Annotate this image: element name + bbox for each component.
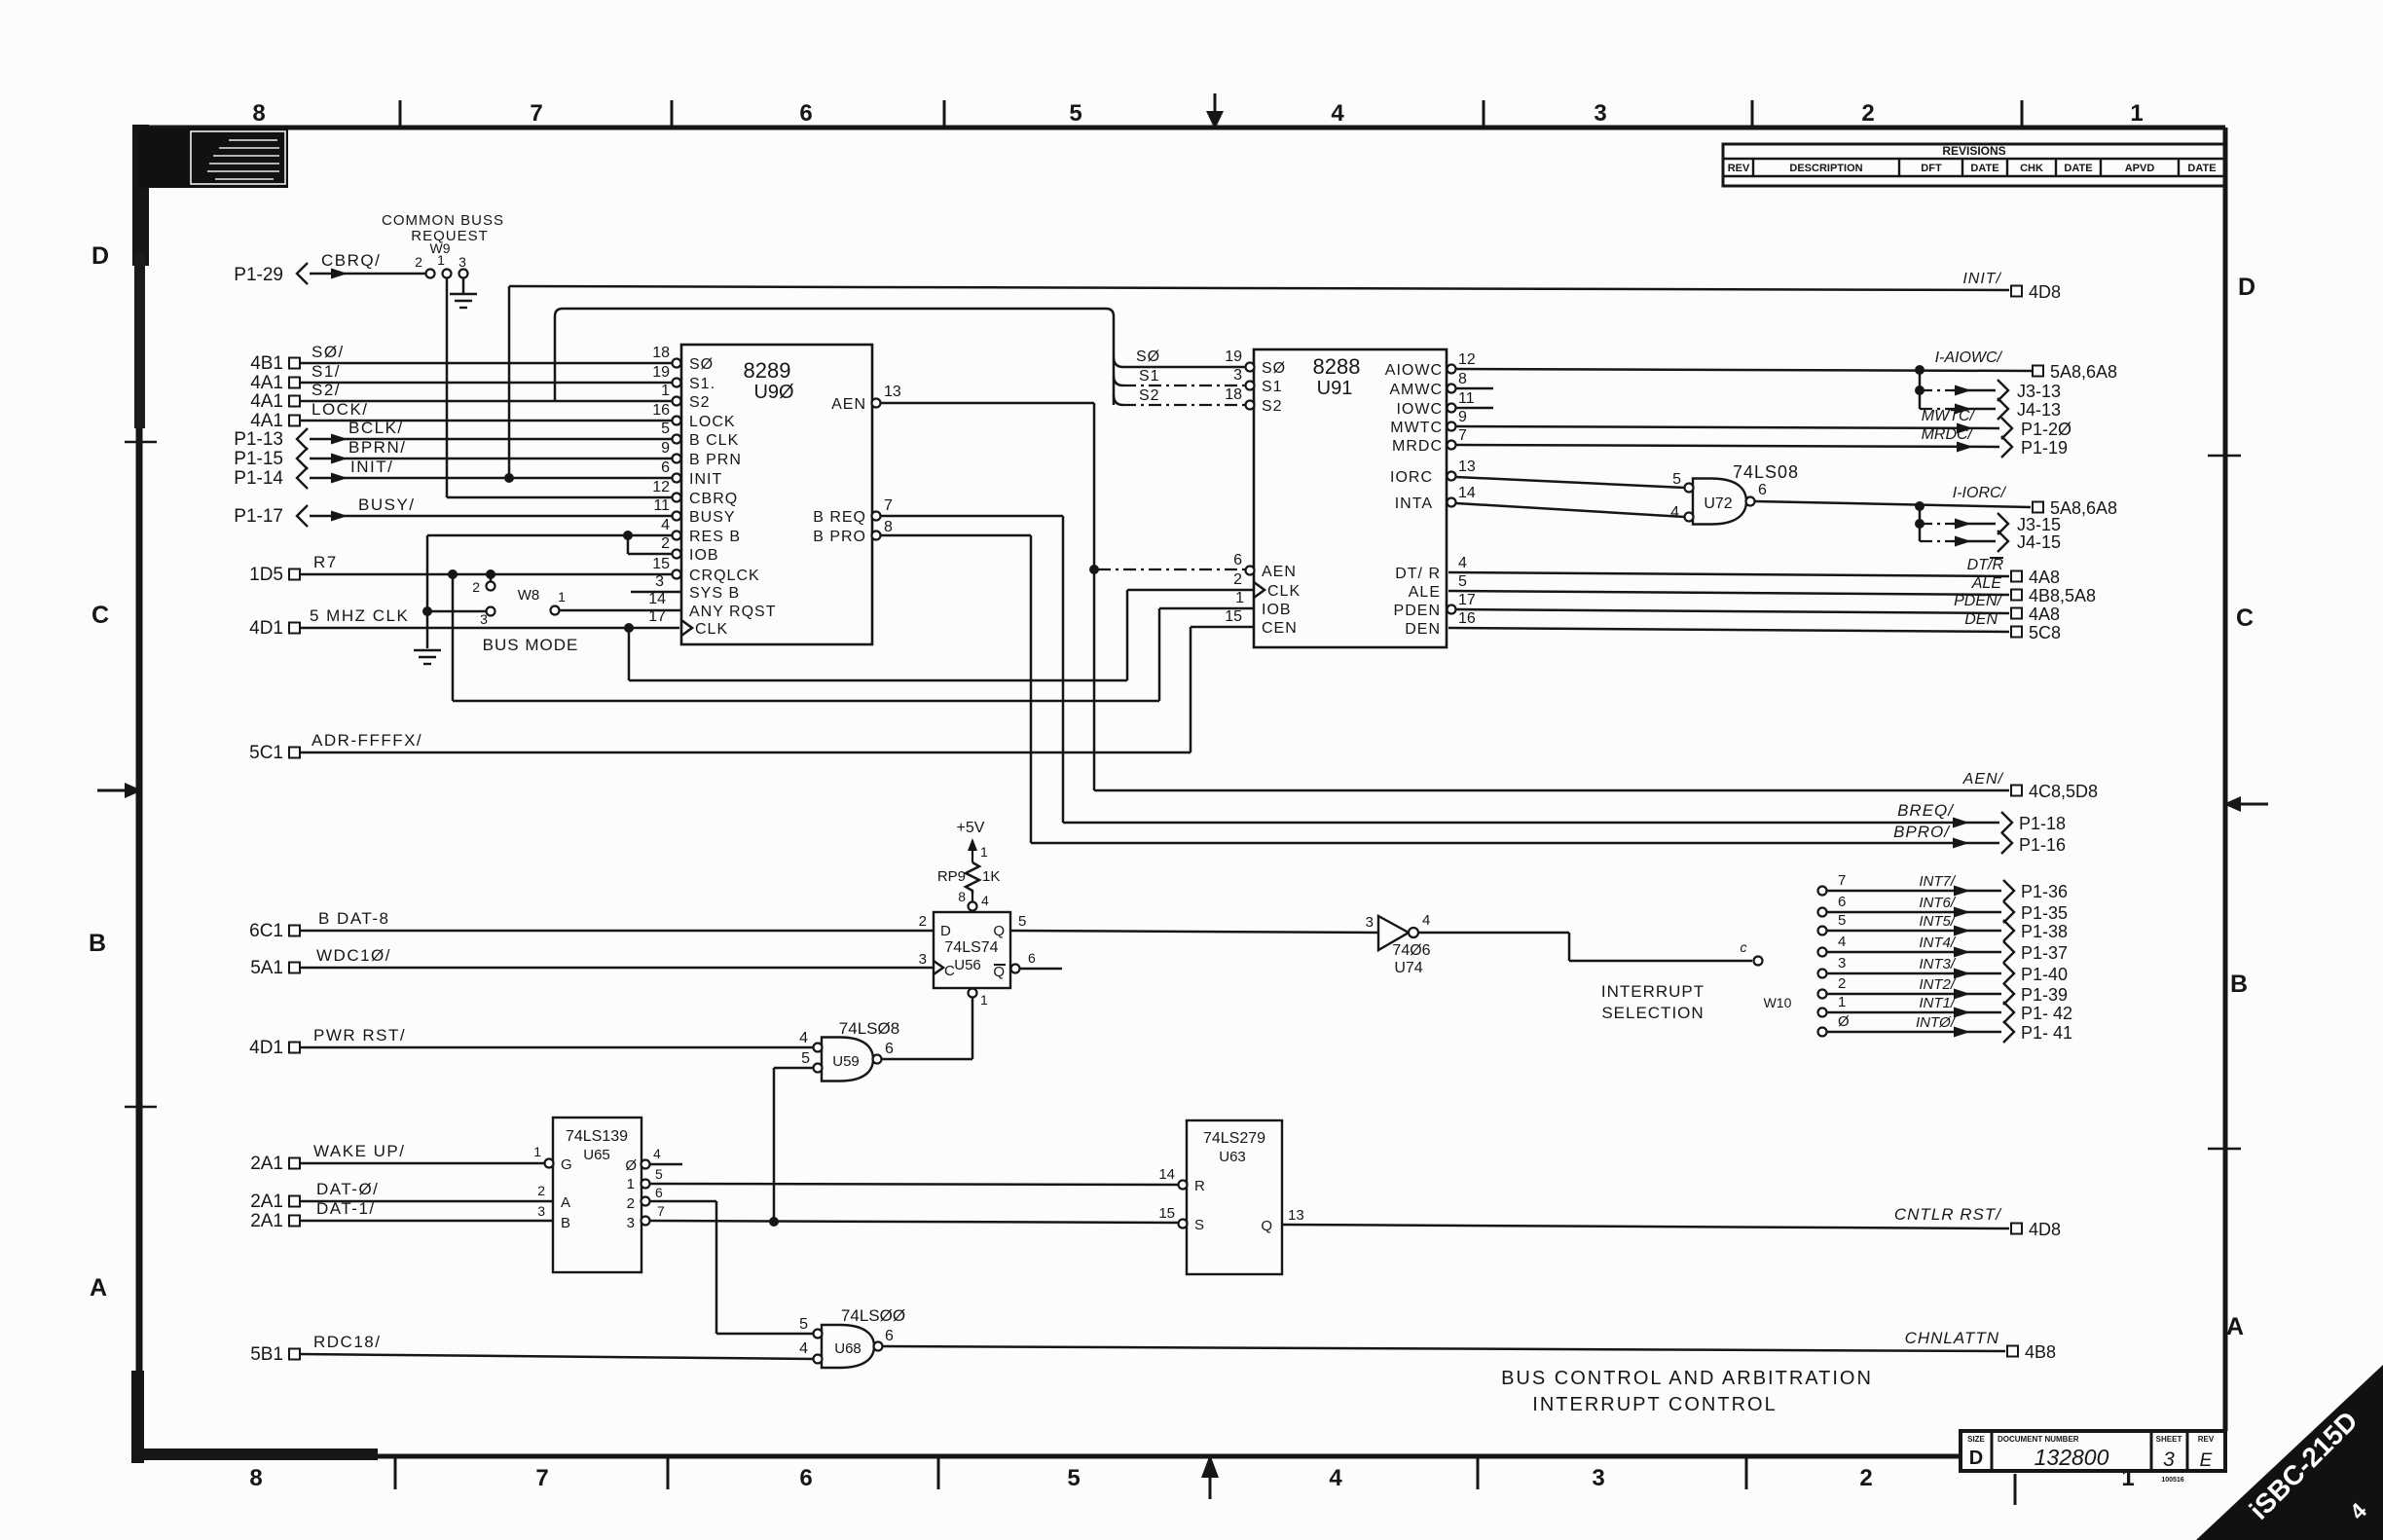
svg-text:19: 19 [652,364,670,381]
svg-text:14: 14 [1158,1166,1175,1183]
wire PWR RST/ from 4D1 [249,1026,814,1058]
svg-text:B PRO: B PRO [813,529,866,545]
svg-text:P1-14: P1-14 [234,468,283,489]
svg-text:I-AIOWC/: I-AIOWC/ [1935,349,2003,366]
svg-text:3: 3 [919,951,927,968]
wire INT4/ to P1-37 [1818,934,2069,963]
wire RES B [427,531,673,540]
svg-text:6: 6 [655,1185,663,1200]
svg-text:P1-19: P1-19 [2021,438,2068,458]
svg-text:CRQLCK: CRQLCK [689,568,760,584]
svg-text:INT1/: INT1/ [1919,995,1957,1011]
wire S1 to U91 pin 3 [1114,368,1246,385]
svg-text:RDC18/: RDC18/ [313,1333,381,1351]
svg-text:P1-39: P1-39 [2021,985,2068,1005]
svg-text:INT7/: INT7/ [1919,873,1957,890]
svg-text:1K: 1K [982,868,1000,885]
svg-text:5 MHZ CLK: 5 MHZ CLK [310,606,409,625]
svg-text:BPRN/: BPRN/ [348,438,406,457]
svg-text:4A8: 4A8 [2029,605,2060,624]
svg-text:C: C [92,602,109,629]
svg-text:S1.: S1. [689,376,715,392]
wire INT6/ to P1-35 [1818,894,2069,923]
svg-text:3: 3 [627,1215,635,1231]
svg-text:BPRO/: BPRO/ [1893,823,1951,841]
svg-text:S2: S2 [689,394,711,411]
left edge arrow marker [97,783,142,798]
node I-IORC/ output [2033,498,2117,518]
svg-text:P1- 42: P1- 42 [2021,1004,2072,1023]
svg-text:132800: 132800 [2035,1445,2109,1470]
svg-text:B: B [2230,971,2248,998]
svg-text:12: 12 [1458,351,1476,368]
svg-text:8: 8 [252,100,265,127]
svg-text:D: D [92,242,109,270]
wire ALE to 4B8,5A8 [1448,575,2096,605]
svg-text:6: 6 [885,1328,894,1344]
wire U56 pin1 preset from U59 [879,998,972,1059]
svg-text:P1-2Ø: P1-2Ø [2021,420,2071,439]
svg-text:IOB: IOB [689,547,719,564]
svg-text:4A1: 4A1 [250,391,283,412]
svg-text:INT2/: INT2/ [1919,976,1957,993]
label INTERRUPT SELECTION [1601,982,1792,1022]
wire U65 pin4 stub [650,1163,682,1166]
wire DAT-1/ from 2A1 [250,1199,553,1231]
wire S0/S1/S2 trunk [555,309,1114,405]
svg-text:P1- 41: P1- 41 [2021,1023,2072,1043]
svg-text:BUS MODE: BUS MODE [483,636,579,654]
svg-text:2: 2 [1838,975,1846,992]
svg-text:W8: W8 [518,587,540,604]
svg-text:1: 1 [437,252,445,268]
svg-text:SYS B: SYS B [689,585,740,602]
wire U65 pin6 to U68 [650,1201,814,1334]
svg-text:9: 9 [661,440,670,457]
svg-text:4: 4 [799,1340,808,1357]
svg-text:B: B [89,930,106,957]
bottom center arrow marker [1201,1454,1219,1499]
svg-text:REV: REV [2198,1435,2215,1444]
svg-text:c: c [1741,939,1747,955]
svg-text:2: 2 [1861,100,1874,127]
wire RES B to IOB pin2 [628,535,673,554]
title block [1961,1431,2225,1471]
border frame [139,128,2225,1456]
svg-text:4: 4 [799,1030,808,1046]
svg-text:J4-15: J4-15 [2017,532,2061,552]
svg-text:CHK: CHK [2020,163,2043,174]
svg-text:S: S [1194,1217,1204,1233]
logic gate U72 74LS08 [1670,462,1799,525]
svg-text:8289: 8289 [744,358,791,383]
svg-text:4B1: 4B1 [250,353,283,374]
svg-text:LOCK/: LOCK/ [312,400,369,419]
wire 5 MHZ CLK from 4D1 [249,606,679,639]
svg-text:DAT-Ø/: DAT-Ø/ [316,1180,379,1198]
svg-text:3: 3 [1366,914,1374,931]
svg-text:RES B: RES B [689,529,741,545]
svg-text:15: 15 [652,556,670,572]
svg-text:D: D [940,923,951,939]
svg-text:DOCUMENT NUMBER: DOCUMENT NUMBER [1998,1435,2079,1444]
svg-text:INTERRUPT CONTROL: INTERRUPT CONTROL [1532,1394,1777,1415]
svg-text:74LS74: 74LS74 [944,939,998,956]
svg-text:A: A [561,1194,570,1211]
svg-text:DEN: DEN [1405,621,1441,638]
svg-text:U74: U74 [1394,960,1422,976]
wire AMWC stub [1456,387,1493,390]
svg-text:5A1: 5A1 [250,958,283,978]
wire B REQ to P1-18 [880,516,2066,833]
svg-text:8: 8 [1458,371,1467,387]
wire I-AIOWC/ [1456,349,2033,375]
wire B PRO to P1-16 [880,535,2066,855]
svg-text:4D8: 4D8 [2029,282,2061,302]
wire INT2/ to P1-39 [1818,975,2069,1005]
svg-text:Q: Q [1261,1218,1272,1234]
wire CNTLR RST/ to 4D8 [1282,1205,2061,1239]
svg-text:5A8,6A8: 5A8,6A8 [2050,362,2117,382]
node AEN/ output [1962,771,2098,801]
wire RES B down to ground [422,535,432,648]
svg-text:8: 8 [958,889,966,904]
svg-text:U56: U56 [954,957,981,973]
svg-text:4C8,5D8: 4C8,5D8 [2029,782,2098,801]
svg-text:CLK: CLK [1267,583,1301,600]
svg-text:B CLK: B CLK [689,432,739,449]
svg-text:ALE: ALE [1971,575,2002,592]
revisions table [1723,144,2225,186]
svg-text:13: 13 [1458,458,1476,475]
U90 left pins [648,345,776,638]
wire INT7/ to P1-36 [1818,872,2069,901]
svg-text:S1/: S1/ [312,362,341,381]
caption INTERRUPT CONTROL [1532,1394,1777,1415]
svg-text:4: 4 [661,517,670,533]
svg-text:IOB: IOB [1262,602,1292,618]
svg-text:U63: U63 [1219,1149,1246,1165]
svg-text:1: 1 [980,992,988,1008]
svg-text:74LS139: 74LS139 [566,1128,628,1145]
svg-text:3: 3 [458,254,466,270]
svg-text:CBRQ: CBRQ [689,491,738,507]
jumper W8 [427,574,681,627]
svg-text:4: 4 [1331,100,1344,127]
svg-text:4: 4 [1838,934,1846,950]
wire ADR-FFFFX/ to U91 CEN [1191,627,1254,752]
svg-text:4D8: 4D8 [2029,1220,2061,1239]
svg-text:S2/: S2/ [312,381,341,399]
svg-text:4: 4 [1458,555,1467,571]
svg-text:S1: S1 [1262,379,1283,395]
svg-text:DATE: DATE [1970,163,1998,174]
svg-text:1: 1 [661,383,670,399]
svg-text:13: 13 [1288,1207,1304,1224]
ground at W9 pin3 [450,278,477,308]
svg-text:MWTC: MWTC [1390,420,1443,436]
U90 right pins [813,384,901,545]
svg-text:BUSY: BUSY [689,509,736,526]
bottom ruler ticks [395,1456,2015,1505]
svg-text:7: 7 [884,497,893,514]
wire LOCK/ from 4A1 [250,400,673,431]
wire INTA to U72 [1456,503,1685,517]
wire MRDC/ to P1-19 [1456,426,2068,458]
svg-text:W10: W10 [1764,995,1792,1010]
svg-text:5: 5 [1838,912,1846,929]
copyright stamp (black blob) [139,128,288,188]
svg-text:U68: U68 [834,1340,862,1357]
svg-text:AEN: AEN [831,396,866,413]
wire INIT/ long run to 4D8 [509,286,2009,478]
wire 5MHZ CLK to U91 CLK [629,590,1253,680]
svg-text:C: C [2236,605,2254,632]
svg-text:7: 7 [657,1203,665,1219]
wire BUSY/ from P1-17 [234,495,673,527]
wire S2 to U91 pin 18 [1114,387,1246,405]
svg-text:WDC1Ø/: WDC1Ø/ [316,946,391,965]
U91 left pins [1225,348,1301,637]
svg-text:4: 4 [1329,1465,1342,1491]
svg-text:RP9: RP9 [937,868,966,885]
svg-text:2A1: 2A1 [250,1154,283,1174]
caption BUS CONTROL AND ARBITRATION [1501,1368,1873,1389]
wire W9 pin1 to CBRQ pin [447,278,673,497]
wire CBRQ/ to P1-29 [234,251,425,285]
ground BUS MODE [414,650,441,664]
svg-text:R7: R7 [313,553,338,571]
top ruler ticks [400,100,2022,128]
svg-text:CHNLATTN: CHNLATTN [1905,1329,1999,1347]
wire S0/ from 4B1 [250,343,673,374]
top center arrow marker [1206,93,1224,129]
svg-text:3: 3 [655,573,664,590]
svg-text:6: 6 [799,100,812,127]
jumper W9 labels [382,212,504,256]
svg-text:2: 2 [1859,1465,1872,1491]
wire U65 pin7 to U63 S [650,1217,1179,1227]
svg-text:U65: U65 [583,1147,610,1163]
row letters left [89,242,109,1302]
svg-text:S1: S1 [1139,368,1160,385]
svg-text:3: 3 [2163,1448,2175,1471]
svg-text:INTØ/: INTØ/ [1916,1014,1957,1031]
svg-text:15: 15 [1158,1205,1175,1222]
svg-text:7: 7 [535,1465,548,1491]
svg-text:Q: Q [993,923,1005,939]
svg-text:INTERRUPT: INTERRUPT [1601,982,1705,1001]
svg-text:INIT/: INIT/ [350,458,393,476]
svg-text:P1-37: P1-37 [2021,943,2068,963]
svg-text:8: 8 [884,519,893,535]
svg-text:5: 5 [655,1166,663,1182]
svg-text:PDEN/: PDEN/ [1954,593,2002,609]
svg-text:7: 7 [530,100,542,127]
svg-text:4B8: 4B8 [2025,1342,2056,1362]
svg-text:P1-15: P1-15 [234,449,283,469]
svg-text:S2: S2 [1262,398,1283,415]
svg-text:SIZE: SIZE [1967,1435,1985,1444]
svg-text:DT/ R: DT/ R [1395,566,1441,582]
svg-text:6: 6 [885,1041,894,1057]
svg-text:MWTC/: MWTC/ [1922,408,1976,424]
svg-text:2A1: 2A1 [250,1192,283,1212]
svg-text:1: 1 [1838,994,1846,1010]
svg-text:E: E [2200,1450,2213,1471]
svg-text:B REQ: B REQ [813,509,866,526]
svg-text:4A1: 4A1 [250,373,283,393]
inverter U74 7406 [1366,912,1431,976]
svg-text:IOWC: IOWC [1396,401,1443,418]
svg-text:REV: REV [1728,163,1750,174]
wire DT/R to 4A8 [1448,557,2060,587]
wire U74 output to W10 [1418,933,1763,966]
svg-text:11: 11 [1458,390,1475,407]
wire BCLK/ from P1-13 [234,419,673,450]
wire MWTC/ to P1-20 [1456,408,2071,439]
svg-text:5B1: 5B1 [250,1344,283,1365]
svg-text:ADR-FFFFX/: ADR-FFFFX/ [312,731,422,750]
svg-text:16: 16 [652,402,670,419]
svg-text:5: 5 [1018,913,1026,930]
svg-text:8: 8 [249,1465,262,1491]
svg-text:J3-15: J3-15 [2017,515,2061,534]
svg-text:P1-29: P1-29 [234,265,283,285]
svg-text:7: 7 [1838,872,1846,889]
svg-text:DATE: DATE [2187,163,2216,174]
border smudge bottom-left corner [131,1371,378,1463]
svg-text:PWR RST/: PWR RST/ [313,1026,406,1045]
svg-text:S2: S2 [1139,387,1160,404]
svg-text:DEN: DEN [1964,611,1998,628]
svg-text:2: 2 [661,535,670,552]
svg-text:3: 3 [537,1203,545,1219]
svg-text:1: 1 [980,844,988,860]
svg-text:6C1: 6C1 [249,921,283,941]
svg-text:G: G [561,1156,572,1173]
svg-text:3: 3 [1838,955,1846,972]
svg-text:6: 6 [1233,552,1242,568]
svg-text:5: 5 [799,1316,808,1333]
svg-text:100516: 100516 [2161,1477,2183,1484]
svg-text:6: 6 [1838,894,1846,910]
svg-text:CLK: CLK [695,621,728,638]
svg-text:4: 4 [1670,504,1679,521]
svg-text:19: 19 [1225,348,1242,365]
svg-text:D: D [1969,1448,1983,1469]
svg-text:2A1: 2A1 [250,1211,283,1231]
svg-text:AMWC: AMWC [1389,382,1443,398]
wire INT3/ to P1-40 [1818,955,2069,984]
svg-text:4A1: 4A1 [250,411,283,431]
svg-text:P1-40: P1-40 [2021,965,2068,984]
latch U63 74LS279 [1158,1120,1303,1274]
svg-text:4D1: 4D1 [249,1038,283,1058]
op-amp U90 8289 bus arbiter block [681,345,872,644]
svg-text:COMMON BUSS: COMMON BUSS [382,212,504,229]
svg-text:+5V: +5V [957,820,985,836]
svg-text:A: A [90,1274,107,1302]
svg-text:5C1: 5C1 [249,743,283,763]
svg-text:P1-17: P1-17 [234,506,283,527]
svg-text:18: 18 [1225,386,1242,403]
bottom ruler zone numbers [249,1465,2183,1491]
svg-text:CBRQ/: CBRQ/ [321,251,381,270]
svg-text:DATE: DATE [2064,163,2092,174]
logic gate U59 74LS08 [799,1019,899,1082]
wire R7 from 1D5 [249,553,673,585]
svg-text:18: 18 [652,345,670,361]
svg-text:D: D [2238,274,2255,301]
svg-text:SØ: SØ [689,356,714,373]
svg-text:1: 1 [558,589,566,605]
node INIT/ output [1962,271,2061,302]
wire CHNLATTN to 4B8 [883,1329,2056,1362]
svg-text:P1-36: P1-36 [2021,882,2068,901]
svg-text:6: 6 [1758,482,1767,498]
svg-text:14: 14 [648,591,666,607]
svg-text:3: 3 [1592,1465,1604,1491]
svg-text:6: 6 [799,1465,812,1491]
jumper W9 pins [415,252,467,278]
svg-text:INT3/: INT3/ [1919,956,1957,972]
svg-text:PDEN: PDEN [1394,603,1441,619]
wire S2/ from 4A1 [250,381,673,412]
svg-text:I-IORC/: I-IORC/ [1953,485,2007,501]
svg-text:15: 15 [1225,608,1242,625]
svg-text:WAKE UP/: WAKE UP/ [313,1142,406,1160]
svg-text:1D5: 1D5 [249,565,283,585]
flip-flop U56 74LS74 [919,893,1062,1008]
wire WAKE UP/ from 2A1 [250,1142,544,1174]
wire I-AIOWC branch to J3-13 / J4-13 [1915,370,2061,420]
svg-text:APVD: APVD [2125,163,2155,174]
svg-text:B DAT-8: B DAT-8 [318,909,389,928]
wire U56 Q to U74 [1010,931,1378,933]
svg-text:B: B [561,1215,570,1231]
svg-text:5: 5 [661,421,670,437]
wire U59 pin5 from U65 [774,1068,814,1222]
svg-text:AIOWC: AIOWC [1385,362,1443,379]
svg-text:4D1: 4D1 [249,618,283,639]
svg-text:P1-35: P1-35 [2021,903,2068,923]
wire S0 to U91 pin 19 [1114,348,1246,367]
wire U65 pin5 to U63 R [650,1184,1179,1185]
wire INT1/ to P1- 42 [1818,994,2073,1023]
svg-text:9: 9 [1458,409,1467,425]
svg-text:J4-13: J4-13 [2017,400,2061,420]
svg-text:4A8: 4A8 [2029,568,2060,587]
svg-text:MRDC: MRDC [1392,438,1443,455]
wire B DAT-8 from 6C1 [249,909,934,941]
svg-text:4: 4 [1422,912,1430,929]
svg-text:CEN: CEN [1262,620,1298,637]
svg-text:LOCK: LOCK [689,414,736,430]
svg-text:74LSØØ: 74LSØØ [841,1306,905,1325]
svg-text:DESCRIPTION: DESCRIPTION [1789,163,1862,174]
svg-text:2: 2 [919,913,927,930]
svg-text:SELECTION: SELECTION [1601,1004,1704,1022]
border smudge top-left [132,125,149,428]
svg-text:1: 1 [533,1144,541,1159]
svg-text:3: 3 [480,611,488,627]
wire IORC to U72 [1456,477,1685,488]
svg-text:1: 1 [1235,590,1244,606]
svg-text:5: 5 [1067,1465,1080,1491]
svg-text:BCLK/: BCLK/ [348,419,404,437]
corner triangle iSBC-215D [2196,1365,2383,1540]
